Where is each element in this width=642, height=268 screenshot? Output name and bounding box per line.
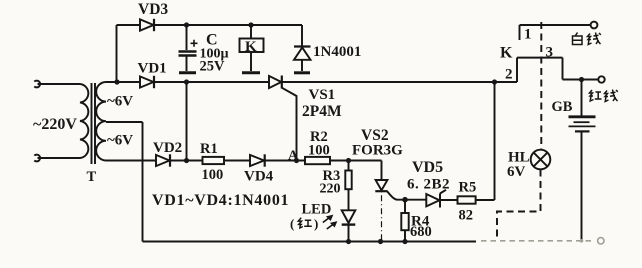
node junction cap/top rail xyxy=(184,22,189,27)
node junction R3 top xyxy=(346,158,351,163)
wire secondary top tap xyxy=(106,81,140,83)
node A xyxy=(294,158,299,163)
svg-text:K: K xyxy=(500,45,513,62)
terminal white wire xyxy=(591,22,598,29)
node junction LED bottom xyxy=(346,239,351,244)
label (red) xyxy=(290,216,318,231)
capacitor C xyxy=(179,25,198,73)
transformer T core xyxy=(92,83,96,164)
resistor R1 xyxy=(203,157,225,164)
wire VD1-VD2 link vertical xyxy=(186,82,188,161)
svg-text:VD5: VD5 xyxy=(412,159,443,176)
resistor R2 xyxy=(305,157,330,164)
svg-text:FOR3G: FOR3G xyxy=(352,143,403,159)
node junction R4 bottom xyxy=(402,239,407,244)
svg-text:): ) xyxy=(314,216,318,231)
lamp HL xyxy=(531,150,551,170)
wire node to VD5 xyxy=(405,199,426,201)
node junction VD2 output xyxy=(184,158,189,163)
svg-text:LED: LED xyxy=(302,202,332,218)
wire secondary bottom tap xyxy=(106,160,156,162)
wire mid rail (rectifier output) xyxy=(140,81,269,83)
wire center-tap drop xyxy=(142,122,144,242)
relay contact arm xyxy=(517,57,563,59)
svg-text:2P4M: 2P4M xyxy=(302,103,342,120)
wire primary top xyxy=(38,83,81,85)
dashed rail (battery return, grey) xyxy=(481,238,604,244)
wire primary bottom xyxy=(38,157,81,159)
transformer T primary terminal bottom xyxy=(34,155,40,162)
wire feedback riser xyxy=(494,82,496,200)
wire mid rail right xyxy=(282,81,517,83)
resistor R4 xyxy=(401,200,408,242)
svg-text:6V: 6V xyxy=(507,164,526,180)
wire R5 to riser xyxy=(476,199,495,201)
svg-text:100: 100 xyxy=(202,167,224,183)
node junction relay K top xyxy=(248,22,253,27)
svg-text:VD2: VD2 xyxy=(153,140,182,156)
relay contact 1 stub xyxy=(519,25,521,40)
wire top rail xyxy=(117,24,303,26)
svg-text:T: T xyxy=(87,169,97,185)
relay coil K xyxy=(240,25,264,73)
svg-text:82: 82 xyxy=(459,208,474,224)
terminal red wire xyxy=(598,76,604,82)
diode 1N4001 (relay clamp) xyxy=(294,25,311,73)
svg-text:~6V: ~6V xyxy=(107,94,133,110)
svg-text:VD4: VD4 xyxy=(244,169,274,185)
zener diode VD5 xyxy=(426,190,446,208)
resistor R5 xyxy=(458,196,476,203)
resistor R3 xyxy=(345,161,351,210)
wire R2 to R3 node xyxy=(330,160,382,162)
wire white lead xyxy=(520,24,591,26)
diode VD2 xyxy=(156,154,170,166)
svg-text:VS1: VS1 xyxy=(309,87,336,103)
transformer T primary terminal top xyxy=(34,81,40,88)
diode VD3 xyxy=(140,19,154,31)
wire R1 to VD4 xyxy=(224,160,250,162)
node junction gate/R4/VD5 xyxy=(402,197,408,203)
svg-text:R1: R1 xyxy=(200,141,218,157)
thyristor VS1 xyxy=(269,76,297,161)
svg-text:1: 1 xyxy=(524,27,532,43)
wire bottom rail xyxy=(143,241,477,243)
svg-text:3: 3 xyxy=(546,45,554,61)
wire red lead xyxy=(563,79,599,81)
label white-line (CJK drawn) xyxy=(573,33,601,45)
diode VD4 xyxy=(250,154,265,166)
svg-text:VD1~VD4:1N4001: VD1~VD4:1N4001 xyxy=(152,192,289,209)
svg-text:100: 100 xyxy=(308,143,330,159)
wire left riser to top rail xyxy=(116,25,118,82)
battery GB xyxy=(569,80,596,241)
svg-text:~220V: ~220V xyxy=(33,116,77,133)
svg-text:VD1: VD1 xyxy=(138,61,167,77)
wire center tap xyxy=(106,121,143,123)
label red-line (CJK drawn) xyxy=(590,90,618,102)
svg-text:VD3: VD3 xyxy=(138,1,168,18)
svg-text:2: 2 xyxy=(505,67,513,83)
diode VD1 xyxy=(140,76,154,88)
transformer T primary winding xyxy=(80,84,88,158)
relay contact pole riser xyxy=(516,58,518,82)
svg-text:~6V: ~6V xyxy=(107,133,133,149)
svg-text:6. 2B2: 6. 2B2 xyxy=(407,177,450,193)
svg-text:1N4001: 1N4001 xyxy=(313,44,361,60)
thyristor VS2 xyxy=(375,161,405,242)
node junction battery top xyxy=(579,77,584,82)
node junction VD1 output xyxy=(184,79,189,84)
transformer T secondary winding xyxy=(96,82,106,161)
svg-text:R5: R5 xyxy=(459,180,477,196)
svg-text:VS2: VS2 xyxy=(361,127,389,144)
wire VD4 to node A xyxy=(265,160,305,162)
svg-text:220: 220 xyxy=(320,182,341,197)
node junction top tap xyxy=(114,79,119,84)
wire VD2 to R1 xyxy=(170,160,203,162)
dashed link lamp to rail xyxy=(497,170,541,241)
svg-text:A: A xyxy=(288,149,299,164)
LED (red) xyxy=(323,210,356,241)
node junction VS2 cathode xyxy=(378,239,383,244)
svg-text:680: 680 xyxy=(410,224,432,240)
dashed link relay to lamp xyxy=(540,22,542,150)
wire contact3 drop xyxy=(562,58,564,80)
svg-text:GB: GB xyxy=(552,99,573,115)
svg-text:(: ( xyxy=(290,216,294,231)
wire VD5 to R5 xyxy=(440,199,458,201)
node junction feedback riser xyxy=(492,79,497,84)
svg-text:25V: 25V xyxy=(200,59,226,75)
